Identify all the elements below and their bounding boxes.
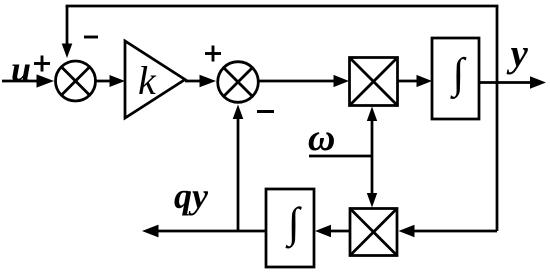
wire feedback top horizontal	[66, 5, 499, 8]
arrowhead up into multiplier1 bottom	[367, 107, 377, 122]
svg-text:ω: ω	[308, 117, 335, 159]
arrowhead into integrator2 right	[315, 225, 331, 237]
arrowhead up into summing2 bottom	[233, 105, 244, 120]
svg-text:∫: ∫	[285, 200, 302, 249]
plus sign at summing1	[34, 56, 50, 72]
integrator 2 box	[266, 189, 314, 267]
summing junction 2	[218, 62, 259, 103]
wire integrator2 to qy arrow	[156, 230, 266, 233]
wire summing1 to amplifier	[96, 80, 112, 83]
svg-text:y: y	[507, 32, 529, 75]
wire feedback left vertical into summing1	[66, 6, 69, 45]
amplifier triangle	[125, 41, 185, 118]
plus sign at summing2	[205, 46, 221, 62]
arrowhead into summing2	[200, 75, 217, 88]
wire multiplier1 to integrator1	[397, 80, 419, 83]
summing junction 1	[56, 61, 96, 101]
arrowhead into amplifier	[110, 75, 126, 87]
wire omega vertical between multipliers	[371, 119, 374, 196]
wire amplifier to summing2	[185, 80, 202, 83]
arrowhead qy output left	[142, 225, 159, 238]
minus sign at summing2	[257, 110, 274, 113]
wire junction up to summing2	[237, 118, 240, 231]
wire summing2 to multiplier1	[259, 80, 336, 83]
wire integrator1 output to y	[479, 81, 533, 84]
svg-text:k: k	[138, 58, 157, 103]
wire bottom horizontal right segment	[412, 230, 497, 233]
arrowhead down into summing1 top	[62, 44, 73, 59]
arrowhead down into multiplier2 top	[367, 193, 377, 208]
arrowhead into integrator1	[417, 75, 433, 87]
svg-text:u: u	[11, 49, 31, 89]
wire input u	[2, 80, 40, 83]
svg-text:∫: ∫	[450, 51, 467, 100]
wire omega horizontal	[309, 155, 372, 158]
arrowhead into multiplier1	[334, 75, 350, 87]
integrator 1 box	[432, 38, 479, 119]
wire multiplier2 to integrator2	[329, 230, 350, 233]
arrowhead into multiplier2 right	[399, 225, 415, 237]
arrowhead into summing1	[37, 74, 55, 87]
wire feedback right vertical	[496, 6, 499, 231]
svg-text:qy: qy	[174, 176, 209, 216]
minus sign top feedback	[84, 36, 98, 39]
arrowhead output y	[530, 76, 546, 88]
multiplier 1 box with X	[350, 58, 398, 106]
multiplier 2 box with X	[350, 209, 397, 256]
